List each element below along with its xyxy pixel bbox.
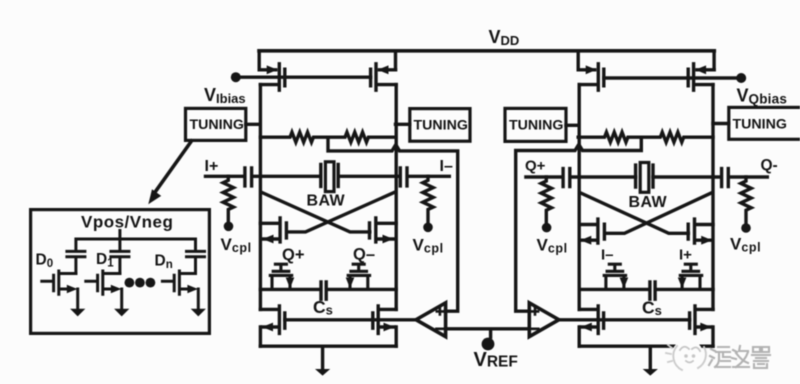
node I+ label	[205, 158, 219, 175]
wire left branch Q+ (vertical x=578.8)	[578, 51, 579, 346]
svg-text:I–: I–	[440, 158, 453, 175]
block TUNING box 4	[729, 107, 800, 139]
transistor PMOS M1 (left core, left)	[259, 64, 285, 90]
capacitor C1 (I+ coupling)	[245, 168, 252, 186]
transistor NMOS X4 (right core cross, right)	[688, 219, 713, 245]
transistor NMOS M5 (left core mirror, left)	[260, 306, 284, 334]
wire mirror gate line left to comparator output	[285, 318, 416, 321]
wire right branch Q- (vertical x=713)	[713, 51, 714, 346]
svg-text:D0: D0	[36, 252, 54, 271]
transistor NMOS S4 (right core switch I+)	[678, 264, 702, 289]
wire bottom rail right core	[579, 345, 713, 348]
svg-text:TUNING: TUNING	[190, 117, 244, 133]
svg-text:Q–: Q–	[353, 246, 375, 264]
wire tuning2 to branch	[396, 123, 410, 126]
node Q+ switch label (left core)	[282, 246, 304, 264]
node I- label	[440, 158, 453, 175]
capacitor CD0	[67, 251, 85, 273]
transistor NMOS S3 (right core switch I-)	[604, 264, 628, 289]
wire resistor midpoint to comparator (+) right	[516, 137, 642, 311]
svg-text:Q-: Q-	[761, 157, 778, 174]
block TUNING box 1	[186, 108, 246, 140]
transistor NMOS D0 switch	[42, 271, 86, 316]
resonator BAW2	[636, 163, 653, 193]
wire Cs rail right + capacitor Cs2	[579, 282, 713, 299]
transistor NMOS M8 (right core mirror, right)	[690, 306, 713, 334]
capacitor CDn	[187, 251, 205, 273]
svg-text:VREF: VREF	[474, 349, 518, 371]
transistor NMOS D1 switch	[86, 271, 130, 316]
wire gate line + VQbias node	[604, 76, 739, 79]
transistor NMOS M7 (right core mirror, left)	[579, 306, 603, 334]
ground right core	[643, 346, 658, 375]
resistor R5 (I+ term) + node Vcpl	[223, 176, 233, 221]
node Q- switch label (left core)	[353, 246, 375, 264]
node VQbias label	[737, 86, 788, 107]
wire cross-couple diagonal right core B	[606, 193, 712, 234]
resistor R7 (Q+ term) + node Vcpl	[541, 177, 551, 223]
transistor NMOS S1 (left core switch Q+)	[270, 264, 294, 289]
capacitor CD1	[111, 251, 129, 273]
wire tuning3 to branch	[566, 124, 578, 127]
transistor NMOS M6 (left core mirror, right)	[373, 306, 396, 334]
wire inset rail	[76, 231, 196, 250]
svg-text:Cs: Cs	[313, 297, 333, 318]
node D1 label	[96, 251, 114, 270]
block TUNING box 2	[410, 109, 470, 142]
resistor R6 (I- term) + node Vcpl	[423, 176, 433, 222]
node I- switch label (right core)	[601, 247, 614, 264]
transistor PMOS M2 (left core, right)	[371, 64, 397, 90]
op-amp A2 (right comparator)	[529, 303, 559, 337]
node Dn label	[155, 253, 173, 272]
transistor NMOS X3 (right core cross, left)	[579, 219, 604, 245]
resistor R2 (left core bias, right)	[328, 132, 396, 142]
svg-text:I–: I–	[601, 247, 614, 264]
wire resistor midpoint to comparator (+) left	[328, 137, 458, 311]
node dots ellipsis	[124, 278, 155, 288]
wire Cs rail left + capacitor Cs1	[260, 282, 396, 299]
wire I+ line	[206, 175, 396, 178]
block inset box Vpos/Vneg	[31, 210, 210, 334]
svg-text:Cs: Cs	[642, 298, 662, 319]
resistor R3 (right core bias, left)	[578, 132, 641, 142]
wire Q- line	[713, 175, 767, 178]
op-amp A1 (left comparator)	[416, 303, 446, 337]
wire tuning1 to branch	[246, 123, 259, 126]
arrow from TUNING to inset box	[148, 141, 191, 204]
wire right branch I- (vertical x=395.7)	[394, 51, 398, 346]
transistor NMOS Dn switch	[162, 271, 206, 316]
svg-text:Vcpl: Vcpl	[413, 236, 444, 256]
capacitor C2 (I- coupling)	[400, 168, 407, 186]
wire I- line	[396, 175, 449, 178]
wire left branch I+ (vertical x=260)	[259, 51, 260, 346]
wire bottom rail left core	[260, 345, 396, 348]
ground left core	[315, 346, 330, 375]
resistor R1 (left core bias, left)	[260, 132, 328, 142]
resistor R8 (Q- term) + node Vcpl	[741, 177, 751, 223]
svg-text:TUNING: TUNING	[509, 118, 563, 134]
node VREF	[482, 338, 495, 351]
capacitor C3 (Q+ coupling)	[563, 169, 570, 187]
svg-text:I+: I+	[679, 247, 692, 264]
svg-text:VQbias: VQbias	[737, 86, 788, 107]
svg-text:Vpos/Vneg: Vpos/Vneg	[81, 213, 173, 232]
svg-text:BAW: BAW	[307, 193, 346, 210]
node D0 label	[36, 252, 54, 271]
wire minus line between comparators + VREF tap	[446, 329, 530, 337]
transistor PMOS M4 (right core, right)	[688, 64, 714, 90]
watermark text 滤波器	[709, 346, 770, 368]
node VDD label	[489, 27, 520, 48]
node VIbias label	[204, 85, 246, 106]
resistor R4 (right core bias, right)	[641, 132, 713, 142]
transistor NMOS X2 (left core cross, right)	[370, 218, 397, 244]
capacitor C4 (Q- coupling)	[722, 169, 729, 187]
transistor NMOS X1 (left core cross, left)	[260, 218, 286, 244]
wire cross-couple diagonal left core B	[288, 192, 395, 232]
svg-text:D1: D1	[96, 251, 114, 270]
svg-text:I+: I+	[205, 158, 219, 175]
wire mirror gate line right to comparator output	[559, 318, 689, 321]
node I+ switch label (right core)	[679, 247, 692, 264]
transistor PMOS M3 (right core, left)	[578, 64, 604, 90]
resonator BAW1	[321, 162, 338, 192]
wire cross-couple diagonal right core A	[580, 193, 688, 234]
block TUNING box 3	[505, 108, 566, 141]
wire Q+ line	[526, 175, 713, 178]
svg-text:Q+: Q+	[525, 158, 546, 175]
wire gate line + VIbias node	[238, 75, 371, 78]
node Q+ label	[525, 158, 546, 175]
svg-text:TUNING: TUNING	[414, 118, 468, 134]
wire VDD rail	[259, 49, 714, 53]
wire tuning4 to branch	[713, 122, 729, 125]
svg-text:VIbias: VIbias	[204, 85, 246, 106]
watermark logo	[666, 340, 706, 372]
svg-text:Dn: Dn	[155, 253, 173, 272]
svg-text:Vcpl: Vcpl	[537, 236, 568, 256]
svg-text:BAW: BAW	[629, 194, 668, 211]
svg-text:TUNING: TUNING	[733, 117, 787, 133]
node Q- label	[761, 157, 778, 174]
wire cross-couple diagonal left core A	[262, 192, 370, 232]
transistor NMOS S2 (left core switch Q-)	[346, 264, 370, 289]
svg-text:Vcpl: Vcpl	[221, 235, 252, 255]
svg-text:VDD: VDD	[489, 27, 520, 48]
svg-text:Q+: Q+	[282, 246, 304, 264]
svg-text:Vcpl: Vcpl	[730, 235, 761, 255]
